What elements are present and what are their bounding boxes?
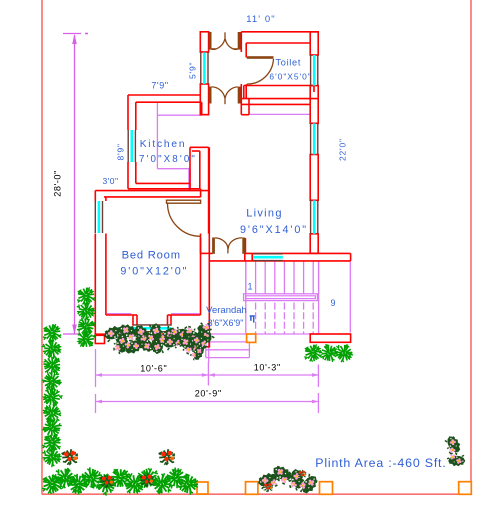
svg-text:10'-3": 10'-3": [254, 363, 281, 373]
svg-text:Toilet: Toilet: [275, 58, 301, 68]
svg-text:20'-9": 20'-9": [195, 389, 222, 399]
svg-text:11' 0": 11' 0": [246, 14, 276, 25]
svg-text:1: 1: [247, 282, 252, 292]
svg-text:8'9": 8'9": [116, 143, 126, 160]
svg-text:Verandah: Verandah: [206, 305, 247, 316]
svg-text:3'6"X6'9": 3'6"X6'9": [208, 318, 244, 328]
svg-text:5'9": 5'9": [188, 62, 198, 79]
svg-text:10'-6": 10'-6": [140, 364, 167, 374]
svg-text:22'0": 22'0": [338, 138, 348, 161]
svg-text:Plinth Area :-460 Sft.: Plinth Area :-460 Sft.: [315, 456, 446, 470]
svg-text:Bed Room: Bed Room: [122, 250, 181, 262]
svg-text:6'0"X5'0": 6'0"X5'0": [269, 72, 311, 82]
svg-text:Living: Living: [246, 208, 283, 220]
svg-text:Kitchen: Kitchen: [140, 139, 187, 150]
svg-text:3'0": 3'0": [102, 176, 118, 186]
svg-text:9'0"X12'0": 9'0"X12'0": [120, 266, 188, 278]
svg-text:28'-0": 28'-0": [53, 170, 63, 196]
svg-text:9'6"X14'0": 9'6"X14'0": [240, 224, 308, 236]
svg-text:9: 9: [330, 298, 335, 308]
svg-text:7'0"X8'0": 7'0"X8'0": [139, 154, 197, 165]
svg-text:7'9": 7'9": [151, 81, 168, 91]
